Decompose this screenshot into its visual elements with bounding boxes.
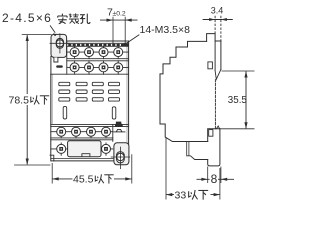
screws row 2: [70, 63, 123, 72]
terminal strip row 2: [51, 61, 129, 74]
dim 78.5 max: [8, 35, 52, 166]
bottom block top band: [51, 124, 129, 141]
dim 35.5: [221, 71, 255, 129]
screws row 3: [57, 127, 111, 136]
svg-text:±0.2: ±0.2: [113, 10, 126, 17]
svg-text:8: 8: [211, 172, 218, 186]
terminal strip row 1: [67, 41, 129, 74]
svg-text:3.4: 3.4: [211, 5, 224, 15]
svg-text:14-M3.5×8: 14-M3.5×8: [140, 24, 191, 36]
mounting hole top-left (4.5x6 obround): [50, 34, 70, 53]
leader for mounting holes: [50, 25, 56, 36]
latch piece: [187, 142, 208, 160]
relay retainer recess: [68, 141, 101, 157]
relay pin slots grid: [59, 82, 120, 101]
upper hook: [208, 62, 213, 69]
dim 8: [197, 167, 235, 187]
bottom-right mounting tab: [114, 143, 129, 165]
screws row 1: [70, 48, 123, 57]
small dark vent: [116, 122, 121, 125]
svg-text:35.5: 35.5: [228, 95, 248, 106]
rail claw: [215, 69, 221, 79]
screws row 4: [57, 144, 111, 153]
dim 45.5 max: [52, 154, 132, 185]
terminal strip row 3: [51, 127, 113, 140]
top-left mounting tab: [51, 34, 67, 67]
rail hidden edge (dashed): [214, 80, 216, 129]
side profile left outline: [160, 41, 208, 141]
dim 7 +-0.2: [100, 7, 138, 47]
side top tab: [207, 34, 221, 42]
dim 33 max: [166, 138, 220, 202]
side rail upper edge: [220, 41, 222, 69]
vertical coil slots: [63, 106, 116, 119]
top hatch band: [67, 43, 129, 46]
mounting hole bottom-right (4.5x6 obround): [111, 147, 130, 169]
dim label 2-4.5x6 mounting holes: [2, 11, 90, 25]
svg-text:2-4.5×6: 2-4.5×6: [2, 11, 52, 25]
svg-text:45.5: 45.5: [73, 174, 94, 186]
svg-text:33: 33: [175, 189, 187, 201]
foot (DIN rail base): [208, 126, 220, 166]
front body outline: [51, 41, 129, 161]
svg-text:78.5: 78.5: [9, 95, 30, 107]
dim label 14-M3.5x8: [123, 24, 191, 46]
dim 3.4: [203, 5, 233, 41]
terminal strip row 4: [50, 143, 113, 161]
